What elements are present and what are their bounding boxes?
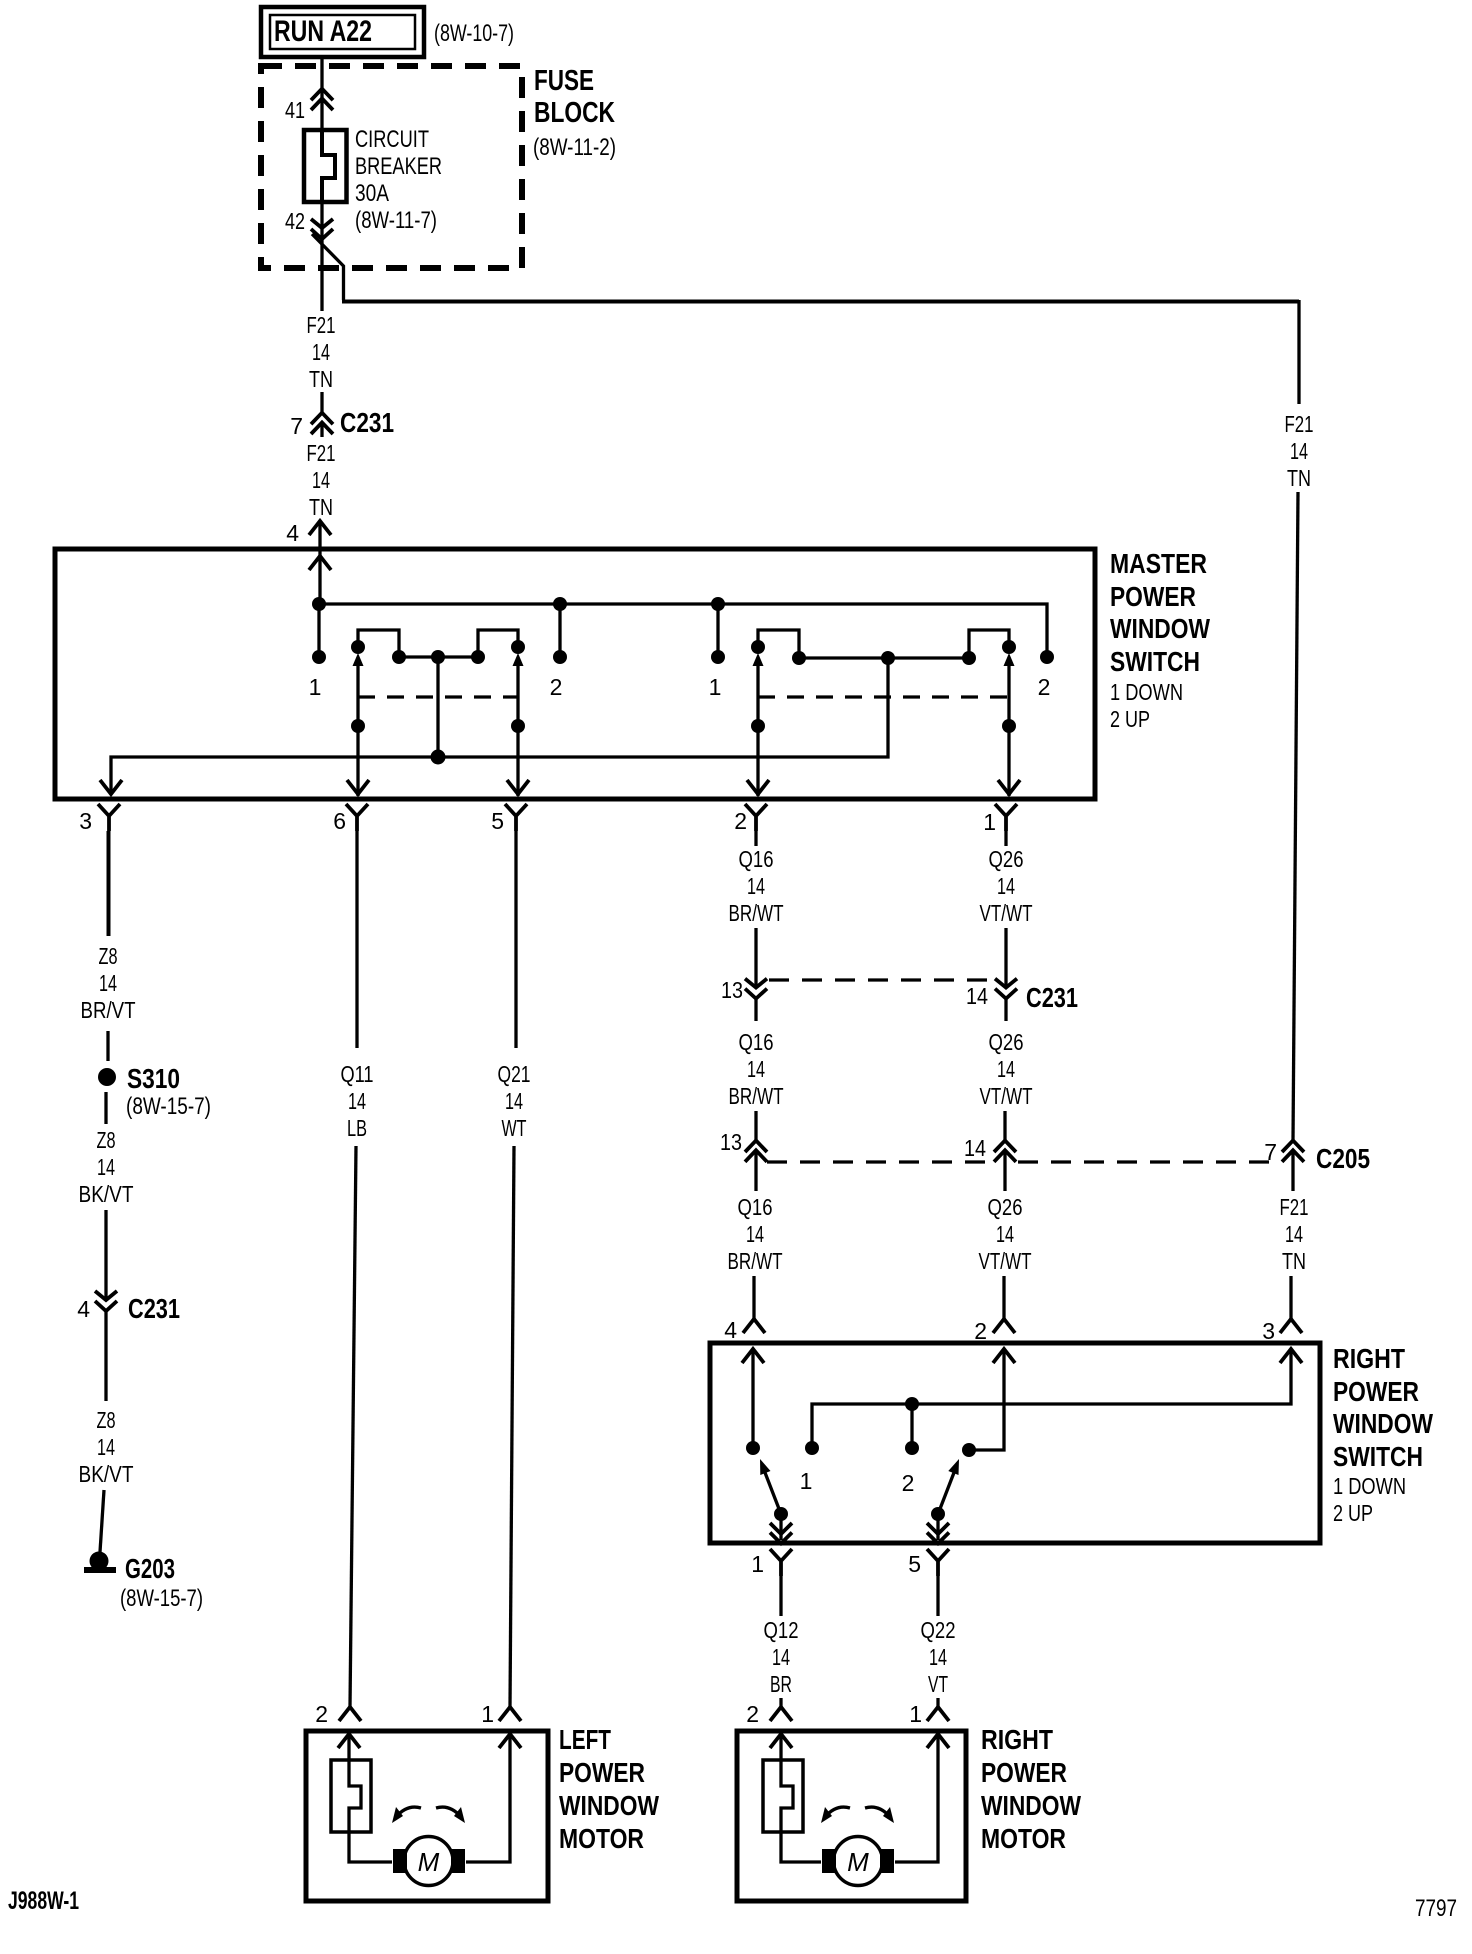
svg-text:F21: F21 xyxy=(307,440,336,466)
svg-text:14: 14 xyxy=(312,339,330,365)
svg-text:WINDOW: WINDOW xyxy=(559,1790,659,1821)
left wiper (pin 1) xyxy=(774,1507,788,1521)
svg-text:2: 2 xyxy=(1038,674,1051,700)
svg-text:SWITCH: SWITCH xyxy=(1333,1441,1423,1472)
svg-text:13: 13 xyxy=(720,1129,742,1155)
svg-text:14: 14 xyxy=(312,467,330,493)
pin 6 exit xyxy=(346,804,368,831)
svg-text:RUN A22: RUN A22 xyxy=(274,15,372,48)
svg-text:VT: VT xyxy=(928,1671,948,1697)
left motor M xyxy=(404,1837,453,1886)
wire Q11 from master pin 6 xyxy=(355,831,358,1048)
svg-text:Q21: Q21 xyxy=(498,1061,531,1087)
svg-text:5: 5 xyxy=(491,808,504,834)
connector C231 pin 14 xyxy=(995,979,1017,999)
junction dots on bus xyxy=(312,597,326,611)
wire from RUN A22 into breaker xyxy=(320,58,323,130)
svg-text:2 UP: 2 UP xyxy=(1333,1500,1373,1526)
contact dots row xyxy=(312,650,326,664)
svg-text:14: 14 xyxy=(997,873,1015,899)
right motor wiring xyxy=(781,1832,821,1862)
C231 dashed connector line xyxy=(769,978,993,981)
svg-text:2: 2 xyxy=(734,808,747,834)
left switch contact link xyxy=(399,655,478,658)
svg-text:BREAKER: BREAKER xyxy=(355,153,442,180)
contact 2 drop xyxy=(905,1397,919,1411)
connector C231 pin 4 xyxy=(95,1291,117,1311)
svg-text:1: 1 xyxy=(983,809,996,835)
svg-text:Q26: Q26 xyxy=(989,1029,1024,1055)
svg-text:SWITCH: SWITCH xyxy=(1110,646,1200,677)
right motor M xyxy=(834,1837,883,1886)
svg-text:MASTER: MASTER xyxy=(1110,548,1207,579)
svg-text:WINDOW: WINDOW xyxy=(1333,1408,1433,1439)
ground G203 xyxy=(90,1552,109,1571)
svg-text:TN: TN xyxy=(1282,1248,1306,1274)
right switch pin 4 entry xyxy=(743,1319,765,1333)
svg-text:3: 3 xyxy=(79,808,92,834)
right wiper arrows xyxy=(753,653,764,666)
svg-text:BR/WT: BR/WT xyxy=(729,900,784,926)
right switch pin 3 entry xyxy=(1280,1319,1302,1333)
right switch pin 2 entry xyxy=(993,1319,1015,1333)
svg-text:BR/WT: BR/WT xyxy=(729,1083,784,1109)
svg-text:14: 14 xyxy=(505,1088,523,1114)
svg-text:C231: C231 xyxy=(128,1293,180,1324)
right motor pin 1 entry xyxy=(927,1707,949,1721)
svg-text:1: 1 xyxy=(709,674,722,700)
svg-text:LEFT: LEFT xyxy=(559,1724,611,1755)
svg-text:VT/WT: VT/WT xyxy=(980,900,1033,926)
wire branch to right feed (F21 to C205) xyxy=(312,234,344,300)
svg-text:C205: C205 xyxy=(1316,1143,1370,1174)
svg-text:F21: F21 xyxy=(307,312,336,338)
master switch pin 4 entry xyxy=(309,521,331,535)
svg-text:Q26: Q26 xyxy=(988,1194,1023,1220)
common return wire to pin 3 xyxy=(111,658,888,793)
C205 dashed connector line xyxy=(767,1160,1281,1163)
svg-text:14: 14 xyxy=(747,873,765,899)
svg-text:BR/VT: BR/VT xyxy=(81,997,136,1023)
svg-text:WINDOW: WINDOW xyxy=(981,1790,1081,1821)
svg-text:(8W-11-2): (8W-11-2) xyxy=(533,134,616,161)
svg-text:1 DOWN: 1 DOWN xyxy=(1333,1473,1406,1499)
svg-text:CIRCUIT: CIRCUIT xyxy=(355,126,429,153)
master power window switch box xyxy=(55,549,1095,799)
left switch bracket 1 xyxy=(358,630,399,655)
svg-text:MOTOR: MOTOR xyxy=(559,1823,644,1854)
node RUN A22 feed box xyxy=(261,7,424,57)
svg-text:2: 2 xyxy=(746,1701,759,1727)
svg-text:41: 41 xyxy=(285,97,305,123)
svg-text:TN: TN xyxy=(1287,465,1311,491)
svg-text:(8W-15-7): (8W-15-7) xyxy=(126,1093,211,1120)
svg-text:RIGHT: RIGHT xyxy=(1333,1343,1405,1374)
left motor wiring xyxy=(349,1832,392,1862)
left power window motor box xyxy=(306,1731,548,1901)
svg-text:S310: S310 xyxy=(127,1063,180,1094)
wire Q16 from master pin 2 xyxy=(754,831,757,846)
svg-text:BK/VT: BK/VT xyxy=(79,1181,134,1207)
wire right feed down to C205 xyxy=(1293,492,1298,1141)
svg-text:13: 13 xyxy=(721,977,743,1003)
svg-text:14: 14 xyxy=(996,1221,1014,1247)
right power window motor box xyxy=(737,1731,966,1901)
svg-text:(8W-15-7): (8W-15-7) xyxy=(120,1585,203,1612)
pin 5 exit xyxy=(927,1549,949,1576)
pin 1 exit xyxy=(995,804,1017,831)
svg-text:Q12: Q12 xyxy=(764,1617,799,1643)
svg-text:TN: TN xyxy=(309,494,333,520)
svg-text:Q16: Q16 xyxy=(738,1194,773,1220)
svg-text:2 UP: 2 UP xyxy=(1110,706,1150,732)
svg-text:Q26: Q26 xyxy=(989,846,1024,872)
svg-text:14: 14 xyxy=(99,970,117,996)
svg-text:WT: WT xyxy=(502,1115,527,1141)
svg-text:1: 1 xyxy=(481,1701,494,1727)
center contact drop left xyxy=(436,657,439,757)
pin 5 exit xyxy=(505,804,527,831)
svg-text:F21: F21 xyxy=(1280,1194,1309,1220)
svg-text:FUSE: FUSE xyxy=(534,65,594,97)
svg-text:1 DOWN: 1 DOWN xyxy=(1110,679,1183,705)
svg-text:2: 2 xyxy=(315,1701,328,1727)
right power window switch box xyxy=(710,1343,1320,1543)
connector C205 pin 7 xyxy=(1282,1141,1304,1162)
svg-text:1: 1 xyxy=(800,1468,813,1494)
svg-text:5: 5 xyxy=(908,1551,921,1577)
svg-text:42: 42 xyxy=(285,208,305,234)
svg-text:7797: 7797 xyxy=(1415,1895,1457,1922)
svg-text:Q11: Q11 xyxy=(341,1061,374,1087)
svg-text:POWER: POWER xyxy=(1110,581,1196,612)
svg-text:4: 4 xyxy=(286,520,299,546)
wire Q22 xyxy=(936,1576,939,1616)
svg-text:14: 14 xyxy=(1290,438,1308,464)
left mechanical link dashed xyxy=(358,695,518,698)
left wiper arrows xyxy=(353,653,364,666)
svg-text:Q16: Q16 xyxy=(739,846,774,872)
right switch bracket 2 xyxy=(969,630,1009,655)
right motor rotation arrow xyxy=(825,1807,850,1817)
wire Q21 from master pin 5 xyxy=(514,831,517,1048)
svg-text:J988W-1: J988W-1 xyxy=(8,1887,79,1915)
left switch bracket 2 xyxy=(478,630,518,655)
svg-text:Q16: Q16 xyxy=(739,1029,774,1055)
svg-text:14: 14 xyxy=(747,1056,765,1082)
left motor rotation arrow xyxy=(396,1807,421,1817)
svg-text:POWER: POWER xyxy=(559,1757,645,1788)
svg-text:(8W-10-7): (8W-10-7) xyxy=(434,20,514,47)
connector pin 42 xyxy=(320,202,323,311)
svg-text:C231: C231 xyxy=(340,407,394,438)
svg-text:30A: 30A xyxy=(355,180,389,207)
svg-text:1: 1 xyxy=(309,674,322,700)
right motor pin 2 entry xyxy=(770,1707,792,1721)
svg-text:WINDOW: WINDOW xyxy=(1110,613,1210,644)
svg-text:RIGHT: RIGHT xyxy=(981,1724,1053,1755)
svg-text:MOTOR: MOTOR xyxy=(981,1823,1066,1854)
svg-text:Q22: Q22 xyxy=(921,1617,956,1643)
svg-text:14: 14 xyxy=(97,1154,115,1180)
svg-text:LB: LB xyxy=(347,1115,367,1141)
svg-text:BK/VT: BK/VT xyxy=(79,1461,134,1487)
svg-text:2: 2 xyxy=(902,1470,915,1496)
svg-text:VT/WT: VT/WT xyxy=(980,1083,1033,1109)
connector pin 41 xyxy=(311,89,333,110)
svg-text:7: 7 xyxy=(290,413,303,439)
svg-text:F21: F21 xyxy=(1285,411,1314,437)
svg-text:1: 1 xyxy=(909,1701,922,1727)
svg-text:(8W-11-7): (8W-11-7) xyxy=(355,207,437,234)
wire Z8 from master pin 3 xyxy=(107,831,111,936)
svg-text:4: 4 xyxy=(724,1317,737,1343)
svg-text:VT/WT: VT/WT xyxy=(979,1248,1032,1274)
svg-text:14: 14 xyxy=(997,1056,1015,1082)
right mechanical link dashed xyxy=(758,695,1009,698)
left motor pin 2 entry xyxy=(339,1707,361,1721)
svg-text:14: 14 xyxy=(964,1135,986,1161)
svg-text:4: 4 xyxy=(77,1296,90,1322)
svg-text:2: 2 xyxy=(550,674,563,700)
circuit breaker CB (30A) xyxy=(304,130,347,202)
svg-text:Z8: Z8 xyxy=(97,1407,116,1433)
pin 2 exit xyxy=(745,804,767,831)
svg-text:14: 14 xyxy=(929,1644,947,1670)
left motor breaker xyxy=(347,1734,350,1760)
right switch bracket 1 xyxy=(758,630,799,655)
svg-text:POWER: POWER xyxy=(1333,1376,1419,1407)
svg-text:14: 14 xyxy=(966,983,988,1009)
svg-text:G203: G203 xyxy=(125,1553,175,1584)
right switch contact link xyxy=(799,656,969,659)
svg-text:POWER: POWER xyxy=(981,1757,1067,1788)
svg-text:M: M xyxy=(418,1847,440,1877)
svg-text:2: 2 xyxy=(974,1318,987,1344)
svg-text:Z8: Z8 xyxy=(99,943,118,969)
connector C231 pin 7 xyxy=(320,392,323,413)
right motor breaker xyxy=(779,1734,782,1760)
svg-text:BLOCK: BLOCK xyxy=(534,97,615,129)
svg-text:14: 14 xyxy=(772,1644,790,1670)
svg-text:BR/WT: BR/WT xyxy=(728,1248,783,1274)
svg-text:14: 14 xyxy=(746,1221,764,1247)
svg-text:6: 6 xyxy=(333,808,346,834)
svg-text:Z8: Z8 xyxy=(97,1127,116,1153)
svg-text:M: M xyxy=(847,1847,869,1877)
svg-text:3: 3 xyxy=(1262,1318,1275,1344)
connector C205 pin 13 xyxy=(745,1141,767,1162)
svg-text:1: 1 xyxy=(751,1551,764,1577)
wire Q12 xyxy=(779,1576,782,1616)
exit arrowheads at box bottom xyxy=(100,780,122,794)
connector C205 pin 14 xyxy=(994,1141,1016,1162)
svg-text:C231: C231 xyxy=(1026,982,1078,1013)
pin 3 exit xyxy=(98,804,120,831)
svg-text:14: 14 xyxy=(348,1088,366,1114)
wire Q26 from master pin 1 xyxy=(1004,831,1007,846)
svg-text:14: 14 xyxy=(1285,1221,1303,1247)
svg-text:BR: BR xyxy=(770,1671,792,1697)
svg-text:14: 14 xyxy=(97,1434,115,1460)
right wiper (pin 5) xyxy=(931,1507,945,1521)
pin 1 exit xyxy=(770,1549,792,1576)
connector C231 pin 13 xyxy=(745,979,767,999)
splice S310 xyxy=(98,1068,116,1086)
fuse block dashed enclosure xyxy=(261,66,522,268)
bus drop wires xyxy=(319,604,718,651)
left motor pin 1 entry xyxy=(499,1707,521,1721)
svg-text:TN: TN xyxy=(309,366,333,392)
bus wire inside master switch xyxy=(319,604,1047,651)
